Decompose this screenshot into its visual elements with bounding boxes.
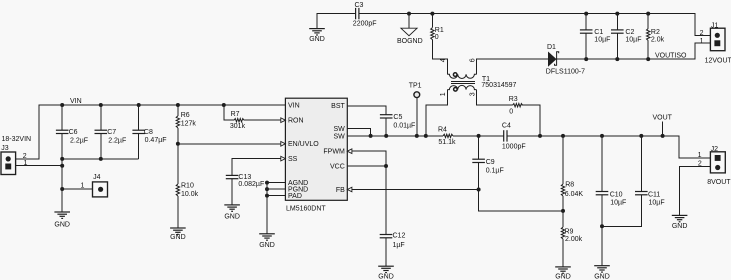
svg-text:10µF: 10µF xyxy=(625,37,641,44)
svg-text:C3: C3 xyxy=(355,2,364,9)
svg-text:SS: SS xyxy=(288,156,298,163)
svg-text:0.082µF: 0.082µF xyxy=(238,181,264,188)
svg-text:127k: 127k xyxy=(181,120,197,127)
svg-text:R10: R10 xyxy=(181,182,194,189)
svg-text:GND: GND xyxy=(555,274,571,280)
svg-text:VIN: VIN xyxy=(70,98,82,105)
svg-text:2: 2 xyxy=(698,161,702,168)
svg-text:1µF: 1µF xyxy=(393,242,405,249)
svg-text:C1: C1 xyxy=(594,29,603,36)
svg-text:J2: J2 xyxy=(711,146,719,153)
svg-text:750314597: 750314597 xyxy=(481,82,516,89)
svg-text:GND: GND xyxy=(672,223,688,230)
svg-text:R6: R6 xyxy=(181,112,190,119)
svg-text:10µF: 10µF xyxy=(594,37,610,44)
svg-text:BST: BST xyxy=(331,103,345,110)
svg-text:RON: RON xyxy=(288,118,304,125)
svg-text:C10: C10 xyxy=(610,192,623,199)
svg-text:C5: C5 xyxy=(393,114,402,121)
svg-text:C4: C4 xyxy=(502,122,511,129)
svg-text:C11: C11 xyxy=(648,191,660,198)
svg-text:51.1k: 51.1k xyxy=(438,139,456,146)
svg-text:18-32VIN: 18-32VIN xyxy=(2,136,32,143)
svg-text:GND: GND xyxy=(259,242,275,249)
svg-text:C2: C2 xyxy=(625,29,634,36)
svg-text:1: 1 xyxy=(440,92,447,96)
svg-text:GND: GND xyxy=(378,273,394,280)
svg-text:0: 0 xyxy=(509,108,513,115)
svg-text:GND: GND xyxy=(224,213,240,220)
svg-text:C9: C9 xyxy=(486,159,495,166)
svg-text:2.2µF: 2.2µF xyxy=(70,137,88,144)
svg-text:EN/UVLO: EN/UVLO xyxy=(288,141,319,148)
svg-text:DFLS1100-7: DFLS1100-7 xyxy=(546,69,585,76)
svg-text:J1: J1 xyxy=(711,23,719,30)
svg-text:1: 1 xyxy=(700,38,704,45)
svg-text:6.04K: 6.04K xyxy=(565,191,584,198)
svg-text:VCC: VCC xyxy=(330,163,345,170)
svg-text:C13: C13 xyxy=(238,174,251,181)
svg-text:GND: GND xyxy=(54,222,70,229)
svg-text:C12: C12 xyxy=(393,233,406,240)
svg-text:J4: J4 xyxy=(93,174,101,181)
svg-text:FPWM: FPWM xyxy=(323,149,345,156)
svg-text:VOUT: VOUT xyxy=(653,114,673,121)
svg-text:10µF: 10µF xyxy=(649,200,665,207)
svg-text:BOGND: BOGND xyxy=(397,38,423,45)
svg-text:R9: R9 xyxy=(565,229,574,236)
svg-text:301k: 301k xyxy=(230,123,246,130)
svg-text:4: 4 xyxy=(440,58,447,62)
svg-text:SW: SW xyxy=(334,126,346,133)
svg-text:R4: R4 xyxy=(438,127,447,134)
svg-text:2.2µF: 2.2µF xyxy=(108,137,126,144)
svg-text:J3: J3 xyxy=(1,145,9,152)
svg-text:10µF: 10µF xyxy=(610,200,626,207)
svg-text:R8: R8 xyxy=(565,181,574,188)
svg-text:SW: SW xyxy=(334,133,346,140)
svg-text:0.1µF: 0.1µF xyxy=(486,168,504,175)
svg-text:TP1: TP1 xyxy=(409,83,422,90)
svg-text:3: 3 xyxy=(469,92,476,96)
svg-text:1: 1 xyxy=(23,160,27,167)
svg-text:0.01µF: 0.01µF xyxy=(393,123,415,130)
svg-text:C7: C7 xyxy=(107,129,116,136)
svg-text:VIN: VIN xyxy=(288,102,300,109)
svg-text:R7: R7 xyxy=(231,111,240,118)
svg-text:VOUTISO: VOUTISO xyxy=(655,52,687,59)
svg-text:C6: C6 xyxy=(69,129,78,136)
svg-text:6: 6 xyxy=(469,58,476,62)
svg-text:10.0k: 10.0k xyxy=(181,191,199,198)
svg-text:R2: R2 xyxy=(651,29,660,36)
svg-text:8VOUT: 8VOUT xyxy=(707,179,731,186)
svg-text:0.47µF: 0.47µF xyxy=(145,137,167,144)
svg-text:1: 1 xyxy=(80,182,84,189)
svg-text:R1: R1 xyxy=(435,27,444,34)
svg-text:LM5160DNT: LM5160DNT xyxy=(286,206,326,213)
svg-text:GND: GND xyxy=(170,234,186,241)
svg-text:GND: GND xyxy=(309,36,325,43)
svg-text:GND: GND xyxy=(594,274,610,280)
svg-text:2: 2 xyxy=(700,30,704,37)
svg-text:1: 1 xyxy=(698,152,702,159)
svg-text:0: 0 xyxy=(435,34,439,41)
svg-text:2.00k: 2.00k xyxy=(565,236,583,243)
svg-text:12VOUT: 12VOUT xyxy=(705,58,731,65)
svg-text:FB: FB xyxy=(336,187,345,194)
svg-text:PAD: PAD xyxy=(288,193,302,200)
svg-text:1000pF: 1000pF xyxy=(502,143,526,150)
svg-text:C8: C8 xyxy=(144,129,153,136)
svg-text:R3: R3 xyxy=(509,96,518,103)
svg-text:2200pF: 2200pF xyxy=(353,20,377,27)
svg-text:D1: D1 xyxy=(547,44,556,51)
svg-text:2.0k: 2.0k xyxy=(651,36,665,43)
